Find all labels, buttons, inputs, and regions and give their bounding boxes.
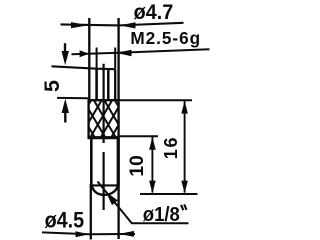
arrow Ø4.7 right (points left) (119, 22, 135, 28)
center line (102, 64, 104, 210)
knurl bottom edge (88, 136, 119, 139)
arrow 5 bottom (points up) (62, 99, 69, 113)
label 10 (rotated) (127, 155, 148, 176)
ball tip dome (91, 184, 118, 195)
label 16 (rotated) (161, 136, 181, 160)
witness line right shared (Ø4.7 / knurl / stem / Ø4.5) (117, 18, 119, 239)
stem cylinder left edge (90, 138, 93, 185)
label 5 (rotated) (40, 80, 64, 92)
dimension line Ø4.5 (42, 232, 135, 234)
extension line 5 dimension bottom (57, 97, 88, 99)
arrow M2.5 right (points left) (116, 50, 132, 56)
knurl left edge (87, 100, 89, 140)
leader arrow Ø1/8 (points up-left) (106, 192, 118, 205)
extension line stud top / 5 dimension top (52, 66, 116, 69)
arrow Ø4.5 right (points left) (119, 231, 134, 237)
dimension line 10 (151, 137, 153, 193)
svg-text:5: 5 (40, 80, 64, 92)
witness line Ø4.5 left (90, 184, 92, 240)
stud M2.5 right edge (114, 69, 116, 100)
svg-text:ø4.7: ø4.7 (134, 0, 174, 24)
tip chord line (92, 184, 119, 186)
leader line Ø1/8 (98, 182, 189, 224)
arrow 10 top (points up) (149, 137, 156, 150)
dimension line M2.5-6g (72, 49, 210, 54)
dimension line 5 lower stem (64, 110, 66, 123)
svg-text:ø4.5: ø4.5 (45, 209, 85, 233)
arrow Ø4.7 left (points right) (71, 22, 89, 28)
arrow 10 bottom (points down) (149, 181, 156, 194)
arrow 16 top (points up) (181, 101, 188, 114)
witness line M2.5 right (stud right edge extension) (114, 48, 116, 69)
svg-text:M2.5-6g: M2.5-6g (130, 28, 201, 48)
dimension line Ø4.7 (61, 23, 184, 26)
extension line bottom (10 and 16 dimensions) (140, 193, 198, 195)
inch double prime marks (181, 204, 187, 210)
extension line 16 dimension top (knurl top extended right) (119, 99, 192, 101)
witness line Ø4.7 left (88, 18, 90, 100)
arrow M2.5 left (points right) (80, 50, 89, 57)
arrow Ø4.5 left (points right) (76, 231, 90, 237)
witness line M2.5 left (stud left edge extension) (96, 48, 98, 69)
label Ø4.7 (134, 0, 174, 24)
svg-text:10: 10 (127, 155, 148, 176)
label Ø1/8 inch (143, 203, 180, 226)
knurl cross-hatch (88, 101, 118, 138)
dimension line 5 upper stem (64, 43, 66, 53)
stud M2.5 left edge (95, 69, 98, 101)
knurl top edge (88, 99, 119, 101)
arrow 5 top (points down) (62, 51, 69, 65)
extension line 10 dimension top (118, 135, 158, 137)
arrow 16 bottom (points down) (181, 181, 188, 194)
stud thread line inner right (107, 70, 110, 101)
stem cylinder right edge (117, 138, 120, 186)
svg-text:16: 16 (161, 136, 181, 160)
label Ø4.5 (45, 209, 85, 233)
label M2.5-6g (130, 28, 201, 48)
dimension line 16 (184, 101, 186, 193)
